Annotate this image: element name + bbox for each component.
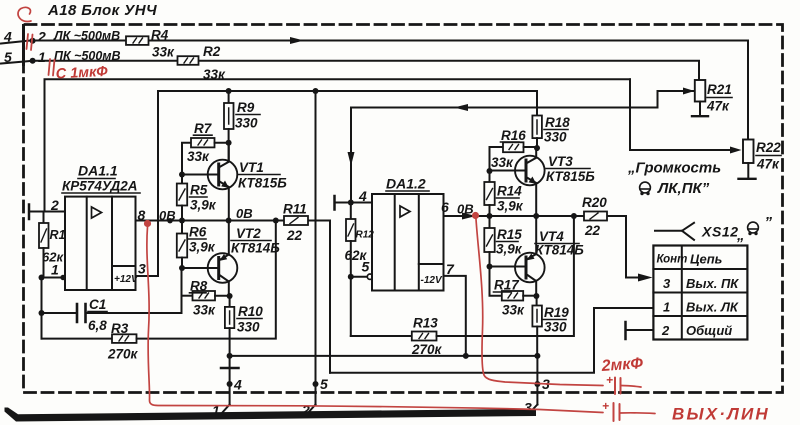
svg-text:0В: 0В [236, 206, 253, 221]
svg-text:3,9к: 3,9к [497, 199, 524, 214]
svg-text:47к: 47к [706, 99, 730, 114]
svg-text:R22: R22 [756, 140, 781, 155]
resistor R12 62к [350, 203, 352, 220]
potentiometer R21 47к [683, 90, 694, 92]
resistor R19 330 [536, 296, 538, 306]
svg-text:+: + [606, 373, 613, 387]
svg-text:”: ” [765, 214, 773, 231]
title А18 Блок УНЧ [47, 2, 157, 19]
svg-text:270к: 270к [107, 347, 139, 362]
svg-text:VT2: VT2 [236, 226, 261, 241]
resistor R20 22 [584, 212, 607, 221]
svg-text:„Громкость: „Громкость [627, 160, 721, 177]
svg-text:R5: R5 [190, 183, 208, 198]
red tick marks below input line 2 (C 1мкФ) [49, 59, 55, 76]
svg-text:33к: 33к [491, 155, 514, 170]
resistor R18 330 [536, 91, 538, 116]
resistor R6 3,9к [181, 221, 183, 234]
arrow on input line 1 [290, 37, 304, 44]
svg-text:4: 4 [233, 377, 242, 393]
svg-text:R15: R15 [497, 227, 522, 242]
wire pin5 line with input ring [351, 276, 368, 278]
red node dot at DA1.1 output [144, 220, 151, 227]
svg-text:R8: R8 [190, 279, 208, 294]
resistor R1 62к [43, 212, 45, 224]
transistor VT3 КТ815Б (NPN) [515, 156, 545, 186]
terminal 4 (with crossbar) [229, 356, 231, 405]
label Громкость ЛК,ПК with headphone icon [627, 160, 721, 198]
svg-text:330: 330 [544, 320, 567, 335]
connector contact bar on left border at input pins [22, 26, 25, 65]
svg-text:R3: R3 [111, 321, 129, 336]
node dots on right 0В line [487, 213, 493, 219]
wire DA1.2 output (pin 6) 0В line [444, 215, 585, 217]
svg-text:33к: 33к [193, 303, 216, 318]
resistor R9 330 [228, 91, 230, 103]
wire pin1 line [42, 277, 66, 279]
svg-text:R2: R2 [203, 44, 221, 59]
resistor R2 [178, 56, 199, 65]
svg-text:Вых. ПК: Вых. ПК [686, 276, 739, 291]
svg-text:33к: 33к [502, 303, 525, 318]
node dots on 0В output line [179, 218, 185, 224]
svg-text:1: 1 [38, 49, 46, 65]
bottom edge bar (board edge) [5, 408, 537, 422]
resistor R17 33к [490, 267, 502, 296]
wire pin5 to R13 vertical [350, 277, 352, 336]
svg-text:5: 5 [320, 376, 328, 392]
wire left channel output routing to XS12 row 1 [330, 308, 653, 373]
terminal stub of DA1.2 pin4 line [333, 196, 336, 210]
svg-text:R18: R18 [545, 115, 570, 130]
svg-text:С 1мкФ: С 1мкФ [55, 64, 108, 83]
svg-text:5: 5 [4, 49, 12, 65]
svg-text:4: 4 [3, 29, 12, 45]
svg-text:8: 8 [138, 207, 146, 223]
svg-text:1: 1 [663, 300, 670, 315]
wire left node vertical (pin1-C1-R3) [41, 278, 43, 339]
transistor VT4 КТ814Б (PNP) [515, 253, 545, 283]
svg-text:ЛК ~500мВ: ЛК ~500мВ [53, 29, 120, 43]
svg-text:Конт: Конт [657, 254, 688, 266]
svg-text:R16: R16 [501, 128, 526, 143]
svg-text:R19: R19 [544, 305, 569, 320]
resistor R16 33к [490, 147, 504, 171]
wire DA1.2 -12V pin to rail [444, 276, 466, 356]
wire: R21 wiper feed line to DA1.2 input (pin 4) [351, 91, 658, 202]
svg-text:62к: 62к [345, 248, 368, 263]
svg-text:2мкФ: 2мкФ [600, 355, 644, 375]
svg-text:VT3: VT3 [548, 154, 573, 169]
svg-text:22: 22 [286, 228, 303, 243]
resistor R8 33к [182, 295, 193, 297]
svg-text:22: 22 [584, 223, 601, 238]
wire: input line 1 (ЛК) from pin 4 to R21/R22 column [1, 41, 126, 44]
svg-text:ЛК‚ПК”: ЛК‚ПК” [657, 180, 710, 197]
capacitor C1 6,8 [42, 312, 78, 314]
svg-text:330: 330 [235, 116, 258, 131]
wire: input line 2 (ПК) from pin 5 to R21 [1, 61, 178, 64]
svg-text:ВЫХ·ЛИН: ВЫХ·ЛИН [672, 405, 770, 424]
terminal 3 (-12V input) [536, 356, 538, 405]
svg-text:47к: 47к [756, 157, 780, 172]
red wavy line from right output to 2мкФ [476, 219, 603, 386]
svg-text:3: 3 [138, 261, 146, 277]
red node dot at DA1.2 output [472, 212, 479, 219]
svg-text:КТ815Б: КТ815Б [238, 176, 287, 191]
svg-text:КТ815Б: КТ815Б [546, 169, 595, 184]
svg-text:330: 330 [237, 320, 260, 335]
svg-text:VT1: VT1 [239, 160, 264, 175]
node dot input 2 [30, 58, 36, 64]
svg-text:R10: R10 [238, 304, 263, 319]
svg-text:КТ814Б: КТ814Б [231, 241, 280, 256]
red wavy line from left output to Вых.ЛИН [147, 227, 603, 413]
svg-text:3,9к: 3,9к [496, 242, 523, 257]
svg-text:R17: R17 [494, 278, 520, 293]
svg-text:6: 6 [441, 199, 449, 215]
svg-text:2: 2 [661, 323, 670, 338]
svg-text:3: 3 [663, 276, 671, 291]
resistor R10 330 [229, 296, 231, 307]
connector fork symbol XS12 [655, 223, 694, 240]
transistor VT1 КТ815Б (NPN) [208, 160, 238, 190]
svg-text:2: 2 [37, 29, 46, 45]
svg-text:R7: R7 [194, 121, 213, 136]
wire +12V pin to top bus [136, 91, 159, 276]
terminal Общий row [624, 322, 627, 339]
headphone icon at XS12 [748, 222, 759, 235]
svg-text:7: 7 [446, 261, 455, 277]
resistor R13 270к (feedback) [351, 335, 412, 337]
svg-text:3,9к: 3,9к [189, 240, 216, 255]
svg-text:Вых. ЛК: Вых. ЛК [686, 300, 739, 315]
red curl top left [18, 7, 31, 21]
svg-text:КР574УД2А: КР574УД2А [62, 179, 137, 194]
node dot pin1 [39, 275, 45, 281]
svg-text:R13: R13 [413, 316, 438, 331]
svg-text:„: „ [736, 227, 745, 244]
svg-text:2: 2 [50, 197, 59, 213]
svg-text:Цепь: Цепь [690, 252, 722, 267]
wire: R22 wiper feed line to DA1.1 input (pin 2) [45, 79, 631, 211]
wire DA1.1 output (pin 8) 0В line [136, 220, 285, 222]
svg-text:6,8: 6,8 [88, 318, 107, 333]
svg-text:С1: С1 [89, 297, 106, 312]
terminal 5 (+12V input up to bus) [315, 91, 317, 405]
contact table XS12 [653, 246, 747, 340]
wire pin2 line [29, 211, 65, 213]
svg-text:33к: 33к [152, 45, 175, 60]
svg-text:-12V: -12V [421, 275, 443, 286]
svg-text:4: 4 [358, 188, 367, 204]
transistor VT2 КТ814Б (PNP) [208, 253, 238, 283]
svg-text:1: 1 [51, 262, 59, 278]
wire -12V rail [230, 355, 538, 357]
red tick marks on input line 1 [27, 34, 33, 50]
svg-text:А18 Блок УНЧ: А18 Блок УНЧ [47, 2, 157, 19]
svg-text:270к: 270к [411, 342, 443, 357]
resistor R14 3,9к [489, 171, 491, 182]
svg-text:R1: R1 [50, 228, 66, 242]
resistor R3 270к (feedback) [42, 338, 113, 340]
svg-text:R4: R4 [151, 28, 169, 43]
svg-text:КТ814Б: КТ814Б [535, 243, 584, 258]
node dot input 1 [30, 38, 36, 44]
resistor R15 3,9к [489, 216, 491, 228]
resistor R7 33к [182, 143, 191, 175]
headphone icon (volume) [640, 182, 651, 195]
svg-text:DA1.1: DA1.1 [78, 163, 118, 179]
wire +12V top bus [158, 90, 537, 92]
arrow into XS12 row 3 (Вых.ПК) [626, 277, 640, 279]
svg-text:+: + [602, 399, 609, 413]
resistor R4 [126, 36, 149, 45]
svg-text:R6: R6 [189, 225, 207, 240]
resistor R11 22 [284, 216, 308, 225]
potentiometer R22 47к [630, 149, 730, 151]
arrow left on wiper line [454, 104, 468, 111]
op-amp DA1.2 [372, 194, 444, 291]
svg-text:ПК ~500мВ: ПК ~500мВ [54, 49, 121, 63]
arrow down to DA1.2 pin 4 [348, 152, 355, 166]
svg-text:R11: R11 [283, 202, 307, 217]
svg-text:R21: R21 [707, 82, 732, 97]
op-amp DA1.1 КР574УД2А [65, 197, 136, 290]
svg-text:R14: R14 [497, 184, 522, 199]
svg-text:R9: R9 [237, 100, 255, 115]
svg-text:R20: R20 [582, 195, 607, 210]
svg-text:DA1.2: DA1.2 [386, 176, 426, 192]
svg-text:330: 330 [544, 130, 567, 145]
svg-text:33к: 33к [187, 149, 210, 164]
svg-text:0В: 0В [457, 202, 474, 217]
resistor R5 3,9к [181, 175, 183, 184]
svg-text:XS12: XS12 [701, 224, 739, 240]
svg-text:Общий: Общий [686, 323, 732, 338]
terminal stub of DA1.1 pin2 line [28, 205, 31, 220]
svg-text:3,9к: 3,9к [190, 198, 217, 213]
wire VT2 base to C1 vertical [181, 268, 183, 313]
svg-text:R12: R12 [356, 230, 375, 241]
